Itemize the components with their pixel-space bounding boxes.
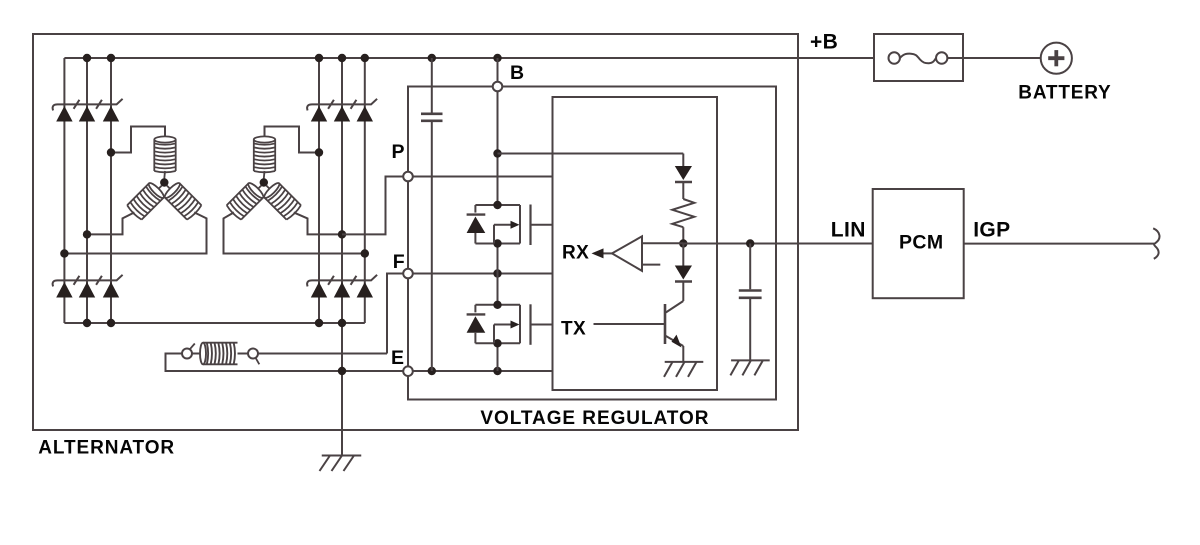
- svg-text:+B: +B: [810, 31, 838, 54]
- svg-text:F: F: [393, 251, 405, 273]
- svg-text:PCM: PCM: [899, 232, 944, 254]
- svg-text:TX: TX: [561, 319, 586, 340]
- svg-text:P: P: [392, 141, 405, 163]
- svg-text:ALTERNATOR: ALTERNATOR: [38, 437, 175, 458]
- svg-text:IGP: IGP: [973, 218, 1010, 241]
- svg-text:B: B: [510, 62, 524, 84]
- svg-text:RX: RX: [562, 242, 589, 263]
- svg-text:E: E: [391, 347, 404, 369]
- svg-text:LIN: LIN: [831, 218, 866, 241]
- svg-text:VOLTAGE REGULATOR: VOLTAGE REGULATOR: [480, 408, 709, 429]
- svg-text:BATTERY: BATTERY: [1018, 83, 1111, 104]
